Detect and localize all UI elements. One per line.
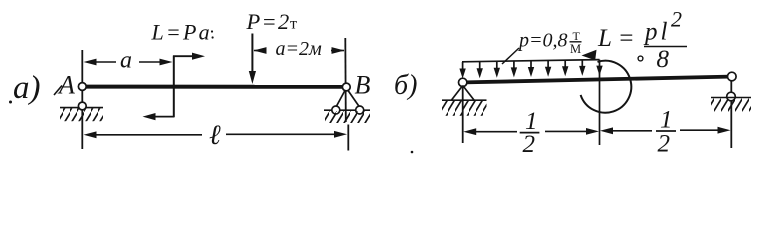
support A reference line xyxy=(81,50,83,149)
svg-text:2: 2 xyxy=(658,131,671,158)
small circle artifact near L label xyxy=(638,56,643,61)
svg-text:М: М xyxy=(570,42,581,56)
support б-left triangle xyxy=(452,86,475,101)
support б-right reference line xyxy=(730,80,732,148)
svg-text:т: т xyxy=(290,16,297,33)
moment value label L=Pa xyxy=(151,20,212,45)
stray mark left of A xyxy=(54,86,62,96)
svg-text:Р=2: Р=2 xyxy=(246,9,291,34)
force label P=2т xyxy=(246,9,298,34)
svg-text:pl: pl xyxy=(643,19,670,46)
force P arrow xyxy=(249,34,256,85)
moment label L=pl²/8 xyxy=(597,7,687,74)
moment arc L in diagram б xyxy=(581,50,632,113)
load label leader line xyxy=(502,48,519,64)
svg-text:1: 1 xyxy=(660,107,673,134)
ground at б-right support xyxy=(711,98,751,112)
support B pin circle xyxy=(342,83,350,91)
ground at support A xyxy=(60,108,103,122)
dimension a=2м (right) xyxy=(254,38,345,60)
svg-text:8: 8 xyxy=(657,46,670,73)
svg-text:p=0,8: p=0,8 xyxy=(517,30,568,52)
svg-text:Т: Т xyxy=(573,29,581,43)
support б-right hinge circle (lower) xyxy=(727,92,736,101)
dimension l/2 (right half of б) xyxy=(600,107,731,158)
label а) xyxy=(13,70,41,106)
svg-text:а=2м: а=2м xyxy=(276,38,322,60)
support B roller triangle xyxy=(324,88,370,110)
support B reference line xyxy=(345,38,348,151)
pin hinge A (upper) xyxy=(78,83,86,91)
support б-left reference line xyxy=(462,86,464,143)
svg-text:L=Pа: L=Pа xyxy=(151,20,212,45)
ground at б-left support xyxy=(442,100,487,116)
speck left of б diagram xyxy=(411,151,414,154)
svg-text:A: A xyxy=(57,71,75,100)
dimension a (left) xyxy=(84,48,173,74)
svg-text:2: 2 xyxy=(523,131,536,158)
node A label xyxy=(57,71,75,100)
svg-text:б): б) xyxy=(394,70,417,101)
svg-text:B: B xyxy=(355,71,371,100)
svg-text:а: а xyxy=(120,48,132,74)
ground at support B xyxy=(325,111,370,123)
label б) xyxy=(394,70,417,101)
support б-right pin circle (upper) xyxy=(728,72,737,81)
midspan divider line (last load arrow extended) xyxy=(596,60,602,145)
pin hinge A (lower, ground) xyxy=(78,102,86,110)
colon artifact after L=Pa xyxy=(211,30,214,38)
svg-text:2: 2 xyxy=(671,7,682,32)
support б-left pin circle xyxy=(459,78,467,86)
beam а xyxy=(84,85,344,89)
distributed load arrows xyxy=(459,60,585,78)
svg-text:L =: L = xyxy=(597,25,635,52)
distributed load p top line xyxy=(462,60,600,62)
beam б xyxy=(465,77,729,83)
dimension l (span of diagram а) xyxy=(84,120,348,151)
speck below а) xyxy=(9,101,12,104)
support B roller circles xyxy=(332,106,364,114)
svg-text:а): а) xyxy=(13,70,41,106)
moment couple L in diagram а xyxy=(143,53,206,121)
load label p=0,8 т/м xyxy=(517,29,582,56)
svg-text:ℓ: ℓ xyxy=(209,120,221,151)
node B label xyxy=(355,71,371,100)
dimension l/2 (left half of б) xyxy=(463,108,599,158)
